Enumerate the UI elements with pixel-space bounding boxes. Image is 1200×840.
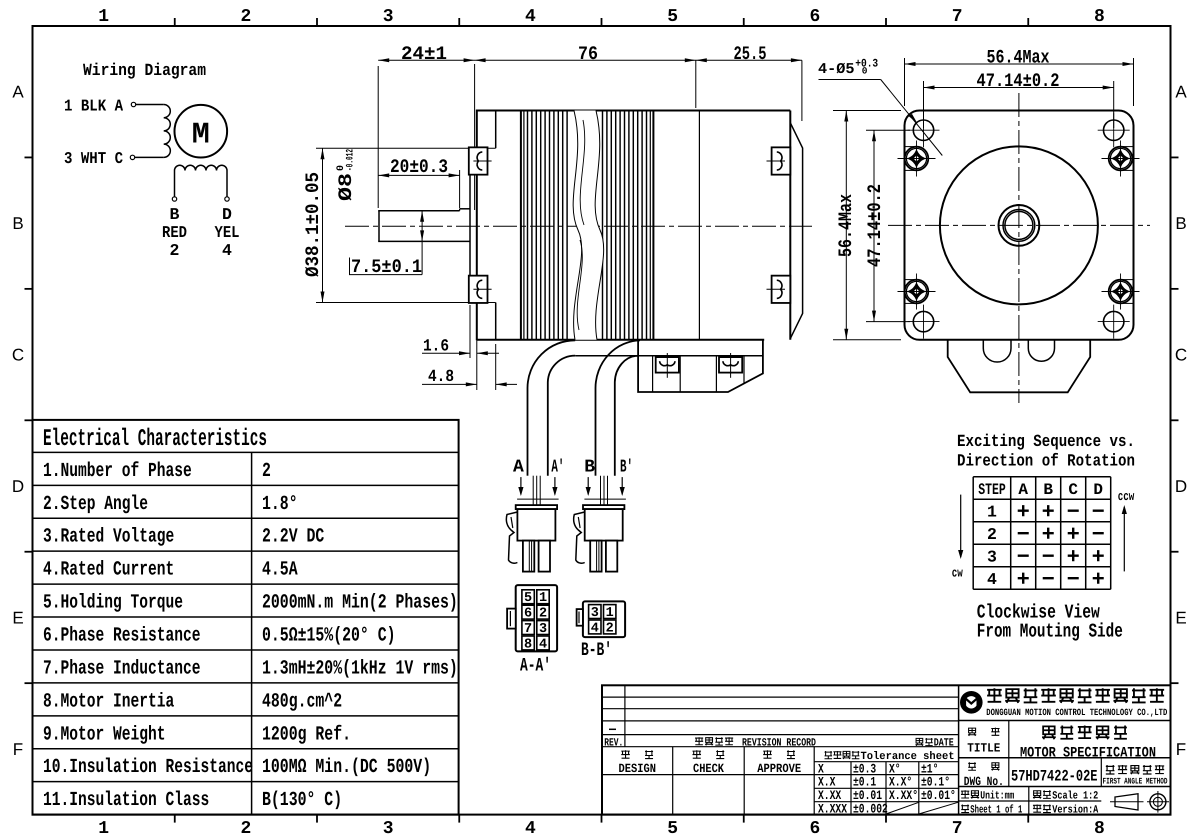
- svg-text:2.Step Angle: 2.Step Angle: [43, 493, 148, 516]
- svg-text:Version:A: Version:A: [1052, 804, 1098, 816]
- svg-text:B: B: [1175, 214, 1186, 233]
- svg-text:1200g Ref.: 1200g Ref.: [262, 723, 351, 746]
- svg-text:4.Rated Current: 4.Rated Current: [43, 559, 174, 582]
- svg-text:cw: cw: [952, 566, 963, 581]
- svg-text:−: −: [1042, 545, 1055, 570]
- svg-text:Ø8: Ø8: [335, 173, 357, 201]
- svg-text:ccw: ccw: [1118, 489, 1135, 504]
- svg-text:REVISION RECORD: REVISION RECORD: [742, 737, 816, 749]
- svg-text:5: 5: [667, 7, 678, 27]
- svg-text:47.14±0.2: 47.14±0.2: [864, 184, 886, 267]
- svg-text:B: B: [170, 205, 180, 224]
- svg-text:B(130° C): B(130° C): [262, 789, 342, 812]
- svg-text:FIRST ANGLE METHOD: FIRST ANGLE METHOD: [1103, 777, 1168, 787]
- svg-text:+: +: [1092, 567, 1105, 592]
- svg-text:2000mN.m Min(2 Phases): 2000mN.m Min(2 Phases): [262, 592, 458, 615]
- svg-text:4: 4: [525, 7, 536, 27]
- svg-text:47.14±0.2: 47.14±0.2: [977, 70, 1060, 92]
- svg-text:A-A': A-A': [520, 655, 551, 677]
- svg-text:57HD7422-02E: 57HD7422-02E: [1011, 767, 1098, 785]
- svg-text:−: −: [1017, 545, 1030, 570]
- svg-text:4: 4: [987, 570, 997, 589]
- svg-text:RED: RED: [162, 223, 187, 242]
- svg-text:A: A: [1175, 83, 1187, 102]
- svg-text:7.Phase Inductance: 7.Phase Inductance: [43, 657, 201, 680]
- svg-text:7: 7: [952, 7, 963, 27]
- svg-text:4: 4: [525, 819, 536, 839]
- svg-text:7.5±0.1: 7.5±0.1: [351, 256, 422, 278]
- svg-text:+: +: [1017, 567, 1030, 592]
- svg-text:X.XXX: X.XXX: [818, 801, 847, 816]
- svg-text:6: 6: [524, 607, 532, 622]
- svg-text:STEP: STEP: [978, 481, 1006, 499]
- svg-text:Wiring Diagram: Wiring Diagram: [83, 62, 206, 81]
- svg-text:1: 1: [539, 591, 547, 606]
- svg-text:4: 4: [539, 637, 547, 652]
- svg-text:+: +: [1042, 500, 1055, 525]
- svg-text:1: 1: [98, 7, 109, 27]
- svg-text:1: 1: [98, 819, 109, 839]
- svg-text:3: 3: [987, 547, 997, 566]
- svg-text:Direction of Rotation: Direction of Rotation: [957, 453, 1135, 472]
- svg-text:1: 1: [606, 606, 614, 621]
- svg-text:B': B': [620, 457, 633, 477]
- svg-text:10.Insulation Resistance: 10.Insulation Resistance: [43, 756, 253, 779]
- svg-text:DWG No.: DWG No.: [964, 775, 1004, 789]
- svg-text:A': A': [551, 457, 564, 477]
- svg-text:4-Ø5: 4-Ø5: [818, 61, 855, 78]
- svg-text:−: −: [1067, 500, 1080, 525]
- svg-text:24±1: 24±1: [401, 43, 447, 65]
- svg-text:9.Motor Weight: 9.Motor Weight: [43, 723, 166, 746]
- svg-text:0.5Ω±15%(20° C): 0.5Ω±15%(20° C): [262, 625, 396, 648]
- svg-text:100MΩ Min.(DC 500V): 100MΩ Min.(DC 500V): [262, 756, 431, 779]
- svg-text:11.Insulation Class: 11.Insulation Class: [43, 789, 209, 812]
- svg-text:Sheet 1 of 1: Sheet 1 of 1: [970, 803, 1022, 816]
- svg-text:76: 76: [578, 43, 598, 65]
- svg-text:Exciting Sequence vs.: Exciting Sequence vs.: [957, 433, 1135, 452]
- svg-text:1: 1: [987, 502, 997, 521]
- svg-text:−: −: [1092, 522, 1105, 547]
- svg-text:3: 3: [539, 622, 547, 637]
- svg-text:1.8°: 1.8°: [262, 493, 298, 516]
- svg-text:6: 6: [809, 819, 820, 839]
- svg-text:2: 2: [606, 621, 614, 636]
- svg-text:8.Motor Inertia: 8.Motor Inertia: [43, 690, 174, 713]
- svg-text:±0.01°: ±0.01°: [921, 788, 956, 803]
- svg-text:E: E: [12, 608, 23, 627]
- svg-text:2: 2: [987, 525, 997, 544]
- svg-text:−: −: [1017, 522, 1030, 547]
- svg-text:+: +: [1067, 522, 1080, 547]
- svg-text:1.Number of Phase: 1.Number of Phase: [43, 460, 192, 483]
- svg-text:8: 8: [1094, 7, 1105, 27]
- svg-text:2: 2: [240, 819, 251, 839]
- svg-text:D: D: [12, 477, 24, 496]
- svg-text:C: C: [1175, 346, 1187, 365]
- svg-text:B: B: [584, 457, 595, 477]
- svg-text:7: 7: [952, 819, 963, 839]
- svg-text:2: 2: [262, 460, 271, 483]
- svg-text:C: C: [1068, 481, 1078, 499]
- svg-text:2: 2: [539, 607, 547, 622]
- svg-text:3.Rated Voltage: 3.Rated Voltage: [43, 526, 174, 549]
- svg-text:0: 0: [862, 66, 868, 77]
- svg-text:2: 2: [240, 7, 251, 27]
- svg-text:3: 3: [591, 606, 599, 621]
- svg-text:2: 2: [170, 241, 180, 260]
- svg-text:Electrical Characteristics: Electrical Characteristics: [43, 426, 267, 453]
- svg-text:−: −: [1092, 500, 1105, 525]
- svg-text:+: +: [1042, 522, 1055, 547]
- svg-text:−: −: [1067, 567, 1080, 592]
- svg-text:D: D: [1175, 477, 1187, 496]
- svg-text:From Mouting Side: From Mouting Side: [977, 621, 1123, 643]
- svg-text:20±0.3: 20±0.3: [390, 156, 448, 178]
- svg-text:±0.002: ±0.002: [853, 801, 888, 816]
- svg-text:MOTOR SPECIFICATION: MOTOR SPECIFICATION: [1020, 745, 1156, 761]
- svg-text:A: A: [1018, 481, 1028, 499]
- svg-text:3: 3: [383, 819, 394, 839]
- svg-text:480g.cm^2: 480g.cm^2: [262, 690, 342, 713]
- svg-text:F: F: [13, 740, 23, 759]
- svg-text:B: B: [12, 214, 23, 233]
- svg-text:5: 5: [667, 819, 678, 839]
- svg-text:DONGGUAN MOTION CONTROL TECHNO: DONGGUAN MOTION CONTROL TECHNOLOGY CO.,L…: [986, 707, 1167, 718]
- svg-text:1.3mH±20%(1kHz 1V rms): 1.3mH±20%(1kHz 1V rms): [262, 657, 458, 680]
- svg-text:F: F: [1176, 740, 1186, 759]
- svg-text:4.5A: 4.5A: [262, 559, 298, 582]
- svg-text:CHECK: CHECK: [693, 762, 724, 776]
- svg-text:APPROVE: APPROVE: [757, 762, 801, 776]
- svg-text:Ø38.1±0.05: Ø38.1±0.05: [302, 172, 324, 277]
- svg-text:REV.: REV.: [604, 737, 623, 749]
- svg-text:X.XX°: X.XX°: [889, 788, 918, 803]
- svg-text:6: 6: [809, 7, 820, 27]
- svg-text:Scale 1:2: Scale 1:2: [1052, 791, 1098, 803]
- svg-text:5: 5: [524, 591, 532, 606]
- svg-text:56.4Max: 56.4Max: [835, 194, 857, 257]
- svg-text:DATE: DATE: [934, 737, 954, 749]
- svg-text:8: 8: [1094, 819, 1105, 839]
- svg-text:B: B: [1043, 481, 1053, 499]
- svg-text:25.5: 25.5: [734, 43, 767, 65]
- svg-text:DESIGN: DESIGN: [619, 762, 657, 776]
- svg-text:A: A: [12, 83, 24, 102]
- svg-text:6.Phase Resistance: 6.Phase Resistance: [43, 625, 201, 648]
- svg-text:3: 3: [383, 7, 394, 27]
- svg-text:YEL: YEL: [215, 223, 240, 242]
- svg-text:M: M: [192, 118, 210, 152]
- svg-text:A: A: [513, 457, 524, 477]
- svg-text:3 WHT C: 3 WHT C: [64, 149, 123, 168]
- svg-text:1 BLK A: 1 BLK A: [64, 97, 123, 116]
- svg-text:TITLE: TITLE: [967, 741, 1000, 755]
- svg-text:4: 4: [222, 241, 232, 260]
- svg-text:4: 4: [591, 621, 599, 636]
- svg-text:+: +: [1092, 545, 1105, 570]
- svg-text:56.4Max: 56.4Max: [987, 47, 1050, 69]
- svg-text:D: D: [1093, 481, 1103, 499]
- svg-text:B-B': B-B': [581, 639, 612, 661]
- svg-text:8: 8: [524, 637, 532, 652]
- svg-text:+: +: [1067, 545, 1080, 570]
- svg-text:-0.012: -0.012: [346, 149, 357, 171]
- svg-text:Unit:mm: Unit:mm: [980, 791, 1014, 803]
- svg-text:+: +: [1017, 500, 1030, 525]
- svg-text:E: E: [1175, 608, 1186, 627]
- svg-text:D: D: [222, 205, 232, 224]
- svg-text:C: C: [12, 346, 24, 365]
- svg-text:7: 7: [524, 622, 532, 637]
- svg-text:5.Holding Torque: 5.Holding Torque: [43, 592, 183, 615]
- svg-text:−: −: [1042, 567, 1055, 592]
- svg-text:2.2V DC: 2.2V DC: [262, 526, 324, 549]
